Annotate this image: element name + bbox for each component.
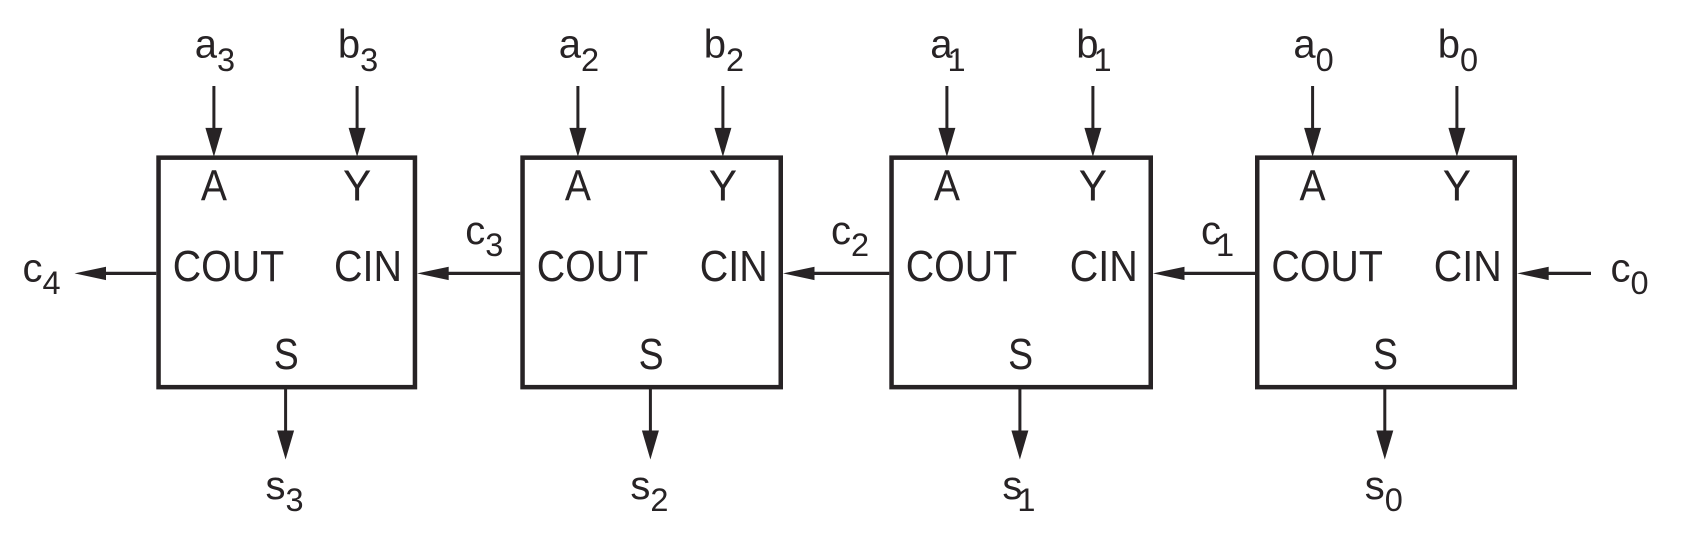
svg-text:s2: s2 (630, 464, 668, 518)
wire: carry c3 from FA2 COUT into FA3 CIN (417, 267, 520, 280)
full adder FA0 (bit 0) (1257, 158, 1515, 388)
full adder FA1 (bit 1) (892, 158, 1151, 388)
full adder FA2 (bit 2) (523, 158, 781, 388)
svg-text:Y: Y (1079, 161, 1107, 210)
wire: a1 input arrow into FA1 pin A (938, 86, 955, 157)
svg-text:b1: b1 (1076, 23, 1111, 78)
svg-text:COUT: COUT (906, 242, 1018, 291)
svg-text:CIN: CIN (1070, 242, 1138, 291)
wire: sum output arrow from FA3 pin S (277, 388, 294, 459)
svg-text:A: A (201, 161, 228, 210)
wire: b2 input arrow into FA2 pin Y (714, 86, 731, 157)
svg-text:CIN: CIN (1434, 242, 1502, 291)
svg-text:A: A (565, 161, 592, 210)
svg-text:s1: s1 (1002, 464, 1035, 518)
svg-text:b2: b2 (704, 23, 744, 78)
svg-text:COUT: COUT (1271, 242, 1383, 291)
svg-text:S: S (639, 330, 664, 379)
svg-text:c0: c0 (1611, 247, 1649, 302)
svg-text:COUT: COUT (173, 242, 285, 291)
wire: carry c2 from FA1 COUT into FA2 CIN (783, 267, 889, 280)
svg-text:CIN: CIN (700, 242, 768, 291)
wire: a0 input arrow into FA0 pin A (1304, 86, 1321, 157)
wire: carry c1 from FA0 COUT into FA1 CIN (1153, 267, 1255, 280)
wire: b1 input arrow into FA1 pin Y (1084, 86, 1101, 157)
wire: carry-in c0 arrow into FA0 CIN (1517, 267, 1591, 280)
wire: b3 input arrow into FA3 pin Y (349, 86, 366, 157)
wire: a3 input arrow into FA3 pin A (205, 86, 222, 157)
svg-text:a3: a3 (195, 23, 235, 78)
svg-text:c1: c1 (1201, 209, 1234, 263)
svg-text:Y: Y (1443, 161, 1471, 210)
svg-text:Y: Y (709, 161, 737, 210)
wire: b0 input arrow into FA0 pin Y (1448, 86, 1465, 157)
svg-text:a1: a1 (930, 23, 965, 78)
svg-text:S: S (1373, 330, 1398, 379)
wire: carry-out c4 arrow from FA3 COUT (75, 267, 157, 280)
svg-text:CIN: CIN (334, 242, 402, 291)
svg-text:a0: a0 (1293, 23, 1333, 78)
svg-text:c4: c4 (23, 247, 61, 302)
svg-text:COUT: COUT (537, 242, 649, 291)
full adder FA3 (bit 3) (159, 158, 415, 388)
svg-text:S: S (1008, 330, 1033, 379)
svg-text:c2: c2 (831, 209, 869, 263)
svg-text:b3: b3 (338, 23, 378, 78)
svg-text:S: S (274, 330, 299, 379)
svg-text:b0: b0 (1438, 23, 1478, 78)
wire: sum output arrow from FA2 pin S (642, 388, 659, 459)
svg-text:s0: s0 (1365, 464, 1403, 518)
wire: sum output arrow from FA0 pin S (1376, 388, 1393, 459)
svg-text:A: A (934, 161, 961, 210)
svg-text:s3: s3 (266, 464, 304, 518)
wire: a2 input arrow into FA2 pin A (569, 86, 586, 157)
svg-text:c3: c3 (465, 209, 503, 263)
svg-text:a2: a2 (559, 23, 599, 78)
svg-text:Y: Y (343, 161, 371, 210)
svg-text:A: A (1300, 161, 1327, 210)
wire: sum output arrow from FA1 pin S (1011, 388, 1028, 459)
